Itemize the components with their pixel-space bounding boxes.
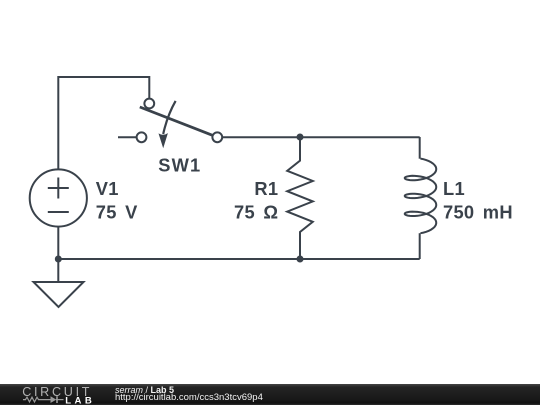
svg-text:LAB: LAB [65, 395, 95, 405]
svg-text:V1: V1 [96, 178, 119, 199]
svg-text:750 mH: 750 mH [443, 201, 513, 222]
svg-text:L1: L1 [443, 178, 465, 199]
svg-text:SW1: SW1 [158, 155, 201, 176]
svg-text:75 Ω: 75 Ω [234, 201, 278, 222]
svg-text:75 V: 75 V [96, 201, 138, 222]
svg-text:R1: R1 [254, 178, 278, 199]
